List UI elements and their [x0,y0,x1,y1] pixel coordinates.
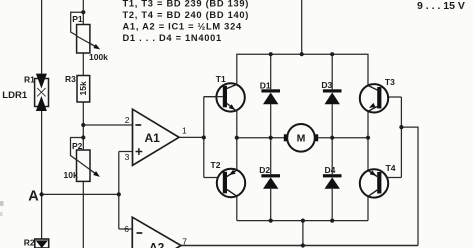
svg-text:D1: D1 [260,80,271,90]
svg-text:T2: T2 [211,160,221,170]
svg-text:2: 2 [125,115,130,125]
svg-text:9 . . . 15 V: 9 . . . 15 V [417,0,465,12]
svg-text:M: M [297,133,306,145]
svg-text:D1 . . . D4 = 1N4001: D1 . . . D4 = 1N4001 [123,33,222,43]
svg-text:100k: 100k [89,52,108,62]
svg-text:P2: P2 [72,141,83,151]
svg-text:15k: 15k [78,81,88,95]
svg-text:6: 6 [124,224,129,234]
svg-text:A1, A2 = IC1 = ½LM 324: A1, A2 = IC1 = ½LM 324 [123,21,242,31]
svg-text:A1: A1 [145,131,161,145]
svg-text:A2: A2 [149,241,165,248]
svg-text:3: 3 [125,152,130,162]
svg-text:1: 1 [182,125,187,135]
svg-text:LDR1: LDR1 [2,90,28,101]
svg-text:T4: T4 [386,163,396,173]
svg-text:T2, T4 = BD 240 (BD 140): T2, T4 = BD 240 (BD 140) [123,10,250,20]
svg-text:T1: T1 [216,74,226,84]
svg-text:10k: 10k [64,170,78,180]
svg-text:R1: R1 [24,74,35,84]
svg-text:A: A [28,188,39,204]
svg-text:R3: R3 [65,74,76,84]
svg-text:D3: D3 [321,80,332,90]
svg-text:T1, T3 = BD 239 (BD 139): T1, T3 = BD 239 (BD 139) [123,0,250,8]
svg-text:7: 7 [182,237,187,247]
svg-text:R2: R2 [24,237,35,247]
svg-text:P1: P1 [72,14,83,24]
svg-text:D2: D2 [259,165,270,175]
svg-text:T3: T3 [385,77,395,87]
svg-text:D4: D4 [325,165,336,175]
